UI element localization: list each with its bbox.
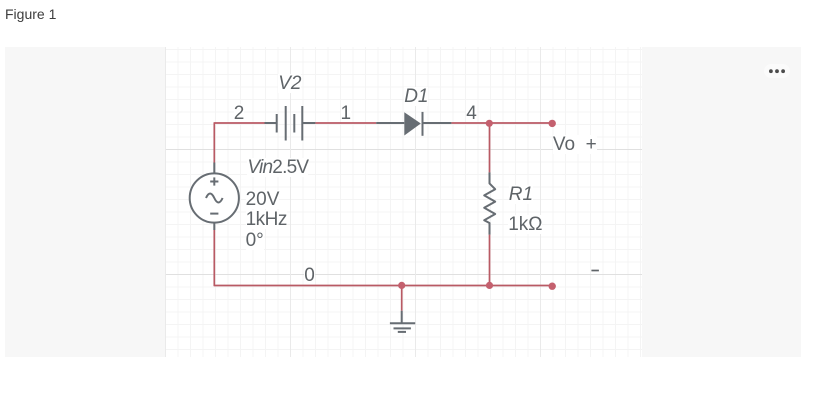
menu three dots [769,69,785,73]
wire top rail red: node2 to battery [214,122,264,124]
terminal Vo minus [549,283,556,290]
label node 2 [234,104,245,123]
label V2 [278,74,301,93]
battery V2 [265,106,316,141]
label Vo plus [553,135,597,154]
label node 1 [341,104,352,123]
resistor R1 [484,172,495,234]
wire bottom rail red [214,285,552,287]
label 20V [246,190,280,209]
label node 4 [466,104,477,123]
wire left branch red lower [213,230,215,286]
wire right branch red lower [489,235,491,286]
menu dots [764,64,790,78]
node junction resistor bottom [486,282,493,289]
label 1kOhm [508,215,542,234]
diode D1 [376,112,451,136]
terminal Vo plus [549,120,556,127]
label minus sign [591,270,599,272]
wire right branch red upper [489,123,491,172]
label R1 [509,185,533,204]
node 0 ground junction [398,282,405,289]
label 1kHz [246,210,287,229]
ground [390,311,415,332]
label node 0 [304,266,315,285]
wire left branch red upper [213,122,215,162]
label D1 [404,87,428,106]
wire top rail red: diode to Vo terminal [451,122,552,124]
AC source Vin [190,163,239,231]
wire ground stub red [401,286,403,311]
node 4 junction [486,120,493,127]
label Vin value [247,158,308,177]
label 0 deg [246,231,264,250]
wire top rail red: battery to diode [315,122,376,124]
